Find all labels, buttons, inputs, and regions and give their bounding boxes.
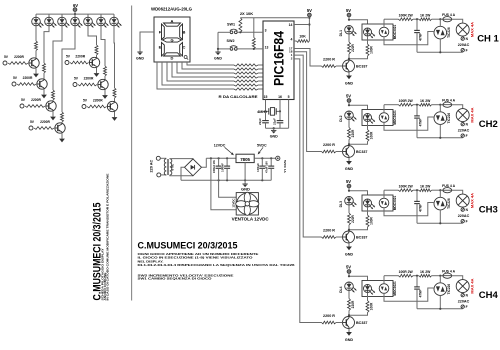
- wire display common to ground: [140, 32, 154, 52]
- resistor 2200R (Q2 base): [17, 83, 36, 86]
- svg-text:CH4: CH4: [479, 290, 499, 301]
- pin number 16: [278, 95, 282, 99]
- triac TIC226 (CH3): [434, 197, 451, 210]
- svg-text:47NF: 47NF: [418, 33, 422, 41]
- wire PIC output to CH1 driver: [294, 49, 322, 67]
- wire display pin to resistor row (PIC pin 9): [172, 62, 234, 77]
- svg-text:2200 R: 2200 R: [323, 314, 335, 318]
- capacitor 100uF (output): [256, 158, 266, 180]
- wire 220R to collector: [348, 225, 350, 231]
- label 220AC (CH3): [458, 214, 470, 218]
- svg-text:220AC: 220AC: [458, 214, 470, 218]
- svg-text:GND: GND: [345, 338, 354, 342]
- wire base resistor to Q10: [336, 236, 343, 238]
- fuse FUS 4A (CH4): [443, 273, 452, 278]
- wire LED7 cathode routing: [113, 26, 116, 88]
- LED display-segment E: [84, 17, 96, 27]
- LED DL2: [345, 111, 357, 121]
- svg-text:MAX 4A: MAX 4A: [469, 22, 474, 37]
- resistor 220R (CH3): [348, 213, 356, 225]
- transistor Q11 BC337: [343, 317, 368, 329]
- terminal 5V (CH1): [346, 8, 351, 17]
- pin number 8: [265, 71, 267, 75]
- pin number 7: [265, 67, 267, 71]
- resistor LED4 series (vertical): [61, 112, 64, 122]
- transistor Q7: [107, 101, 117, 111]
- label DL3: [339, 201, 343, 208]
- svg-text:BC337: BC337: [356, 150, 367, 154]
- terminal 5V (PIC supply): [307, 8, 312, 17]
- wire opto output to snubber line: [383, 105, 385, 113]
- optocoupler input LED: [364, 285, 375, 295]
- label 2200R (Q6): [84, 76, 94, 80]
- wire opto LED to 100R: [367, 36, 369, 44]
- terminal 5V (Q1 base): [3, 55, 9, 65]
- svg-text:MOC3021: MOC3021: [393, 196, 397, 211]
- regulator U3 7805: [236, 154, 254, 162]
- wire 100R to collector node: [349, 142, 368, 145]
- resistor LED3 series (vertical): [52, 90, 55, 100]
- wire anode stub LED 6: [100, 14, 102, 17]
- wire bridge positive to 12V rail: [202, 158, 207, 167]
- label FUS 4 A: [442, 98, 455, 102]
- wire 220R to collector: [348, 54, 350, 60]
- label MOC3021: [393, 281, 397, 296]
- wire Q8 emitter: [348, 72, 350, 76]
- display segment B: [180, 24, 183, 40]
- resistor LED6 series (vertical): [104, 66, 107, 76]
- svg-text:TIC226: TIC226: [447, 284, 451, 295]
- svg-text:BC337: BC337: [356, 236, 367, 240]
- wire 5V to DL1 and opto: [348, 17, 368, 24]
- svg-text:CH 1: CH 1: [477, 34, 499, 45]
- resistor 2200R (Q3 base): [25, 105, 45, 108]
- svg-text:PIC16F84: PIC16F84: [271, 31, 286, 86]
- wire triac MT1 to bottom rail: [439, 210, 441, 223]
- pin number 11: [265, 83, 269, 87]
- pin number 3: [265, 29, 267, 33]
- svg-text:5V: 5V: [346, 264, 351, 269]
- svg-text:5VDC: 5VDC: [257, 143, 267, 147]
- label FUS 4 A: [442, 269, 455, 273]
- wire resistor to PIC pin 11: [258, 84, 263, 86]
- wire to 100R 2W: [384, 275, 399, 277]
- svg-text:D: D: [171, 56, 174, 61]
- svg-text:5V: 5V: [346, 93, 351, 98]
- microcontroller U1 PIC16F84 body: [263, 21, 294, 100]
- power rail 6V terminal: [73, 3, 78, 11]
- svg-text:TIC226: TIC226: [447, 198, 451, 209]
- svg-text:100nF: 100nF: [221, 163, 225, 172]
- optocoupler output phototriac: [379, 113, 389, 123]
- wire anode stub LED 3: [61, 14, 63, 17]
- ground (crystal): [270, 128, 278, 138]
- terminal 220 AC lower: [157, 173, 161, 177]
- capacitor 22pF (right): [273, 111, 284, 128]
- wire 1K 2W to fuse: [432, 18, 444, 20]
- svg-text:100R: 100R: [370, 131, 374, 139]
- svg-text:1K 2W: 1K 2W: [420, 184, 431, 188]
- wire fuse to lamp: [452, 276, 463, 280]
- title C.MUSUMECI 20/3/2015 (vertical): [92, 203, 104, 301]
- resistor 100R 2W (CH1): [399, 18, 414, 21]
- svg-text:2200 R: 2200 R: [323, 229, 335, 233]
- svg-text:B: B: [182, 29, 185, 34]
- svg-text:5V: 5V: [346, 8, 351, 13]
- svg-text:100R: 100R: [370, 45, 374, 53]
- wire 100R 2W to 1K 2W: [413, 104, 419, 106]
- transformer T1 secondary: [170, 159, 172, 175]
- label segment F: [159, 29, 162, 34]
- ground (CH3): [345, 247, 354, 257]
- svg-text:VENTOLA 12VDC: VENTOLA 12VDC: [232, 217, 269, 222]
- label 2200 R (CH4): [323, 314, 335, 318]
- wire SW1 to PIC pin 3: [237, 31, 263, 33]
- svg-text:100R 2W: 100R 2W: [399, 13, 414, 17]
- wire base resistor to Q8: [336, 65, 343, 67]
- note line 3: [138, 259, 164, 263]
- lamp load (CH1): [456, 23, 469, 36]
- svg-text:MAX 4A: MAX 4A: [469, 107, 474, 122]
- wire resistor to Q3 collector: [52, 99, 54, 102]
- ground (Q3 emitter): [50, 117, 56, 121]
- wire 1K 2W to fuse: [432, 189, 444, 191]
- label MAX 4A (CH2): [469, 107, 474, 122]
- transformer T1 core: [168, 159, 169, 175]
- svg-text:MOC3021: MOC3021: [393, 110, 397, 125]
- wire LED1 cathode to collector resistor: [35, 26, 37, 41]
- transistor Q1: [29, 58, 39, 68]
- resistor 2200R (CH3 base): [322, 236, 337, 239]
- terminal 5V (Q3 base): [20, 98, 26, 108]
- ground (CH2): [345, 161, 354, 171]
- wire Q11 emitter: [348, 329, 350, 333]
- label 2200 R (CH1): [323, 58, 335, 62]
- transistor Q5: [89, 57, 99, 67]
- svg-text:220R: 220R: [351, 43, 355, 51]
- svg-text:SW1 CAMBIO SEQUENZA DI GIOCO: SW1 CAMBIO SEQUENZA DI GIOCO: [138, 277, 213, 281]
- transformer T1 primary: [164, 159, 166, 175]
- label 100R 2W: [399, 13, 414, 17]
- fuse FUS 4A (CH2): [443, 102, 452, 107]
- resistor 10K b (SW2 pull-up): [252, 18, 255, 49]
- resistor 1K 2W (CH4): [419, 274, 432, 277]
- label 100R 2W: [399, 184, 414, 188]
- wire fuse to lamp: [452, 19, 463, 23]
- wire resistor to PIC pin 10: [258, 80, 263, 82]
- resistor 1K 2W (CH1): [419, 18, 432, 21]
- wire SW2 to ground stem: [218, 48, 230, 50]
- label 2200 R (CH2): [323, 143, 335, 147]
- label DL1: [339, 30, 343, 37]
- wire LED5 cathode routing: [88, 26, 97, 45]
- resistor 100R (CH3): [366, 215, 374, 227]
- wire display pin to resistor row (PIC pin 12): [157, 62, 234, 89]
- svg-text:SW2: SW2: [227, 39, 235, 43]
- fuse FUS 4A (CH3): [443, 188, 452, 193]
- wire Q10 emitter: [348, 243, 350, 247]
- label SW2: [227, 39, 235, 43]
- label CH4: [479, 290, 499, 301]
- wire display pin to resistor row (PIC pin 11): [162, 62, 234, 85]
- label 2200R (Q2): [23, 76, 33, 80]
- svg-text:1K 2W: 1K 2W: [420, 99, 431, 103]
- wire resistor to PIC pin 9: [258, 76, 263, 78]
- crystal X1 4MHz: [269, 108, 276, 116]
- wire triac MT1 to bottom rail: [439, 39, 441, 52]
- subtitle ANODO COMUNE (vertical): [103, 273, 107, 301]
- wire PIC output to CH4 driver: [294, 59, 322, 323]
- ground (display): [136, 52, 144, 61]
- wire resistor to PIC pin 8: [258, 72, 263, 74]
- pin number 9: [265, 75, 267, 79]
- LED display-segment G: [110, 17, 122, 27]
- label DL2: [339, 115, 343, 122]
- wire anode stub LED 7: [113, 14, 115, 17]
- svg-text:DL2: DL2: [339, 115, 343, 122]
- svg-text:220 AC: 220 AC: [150, 160, 154, 173]
- terminal 5V (CH4): [346, 264, 351, 273]
- wire anode stub LED 2: [48, 14, 50, 17]
- svg-text:16: 16: [278, 95, 282, 99]
- wire Q4 emitter: [61, 133, 63, 138]
- frame divider line: [131, 6, 133, 301]
- label 12VDC with arrow: [214, 143, 234, 155]
- LED display-segment C: [58, 17, 70, 27]
- capacitor 1000uF 16V: [212, 158, 222, 180]
- wire opto LED to 100R: [367, 207, 369, 215]
- wire 100R to collector node: [349, 313, 368, 316]
- wire AC terminals to transformer: [160, 158, 166, 175]
- resistor 100R (CH1): [366, 44, 374, 56]
- label MAX 4A (CH1): [469, 22, 474, 37]
- label 1K 2W: [420, 270, 431, 274]
- pin number 17: [289, 46, 293, 50]
- label DL4: [339, 286, 343, 293]
- wire resistor to PIC pin 6: [258, 64, 263, 66]
- svg-text:10K: 10K: [299, 35, 306, 39]
- transistor Q4: [55, 123, 65, 133]
- terminal F (CH1): [461, 48, 468, 52]
- note line 5: [138, 273, 234, 277]
- resistor 2200R (CH2 base): [322, 150, 337, 153]
- wire lamp to N terminal: [462, 35, 464, 38]
- wire to 100R 2W: [384, 104, 399, 106]
- wire opto output to snubber line: [383, 19, 385, 27]
- wire SW1 to ground stem: [218, 31, 230, 33]
- svg-text:100R 2W: 100R 2W: [399, 270, 414, 274]
- wire anode stub LED 1: [35, 14, 37, 17]
- label segment G: [170, 38, 173, 43]
- wire PIC pin 16 down: [276, 100, 281, 113]
- wire 12V rail to fan: [211, 158, 236, 210]
- wire 7805 ground pin: [244, 163, 246, 184]
- label segment D: [171, 56, 174, 61]
- optocoupler U8 MOC3021 body: [362, 281, 393, 297]
- resistor 2200R (Q7 base): [87, 105, 107, 108]
- wire base resistor to Q11: [336, 322, 343, 324]
- svg-text:GND: GND: [136, 57, 144, 61]
- resistor 100R 2W (CH4): [399, 274, 414, 277]
- label MOC3021: [393, 25, 397, 40]
- note line 4: [138, 263, 295, 267]
- transistor Q2: [37, 79, 47, 89]
- wire resistor to Q7 collector: [114, 98, 116, 101]
- wire to 100R 2W: [384, 18, 399, 20]
- wire PIC output to CH3 driver: [294, 55, 322, 237]
- svg-text:1K 2W: 1K 2W: [420, 13, 431, 17]
- resistor 2200R (CH4 base): [322, 321, 337, 324]
- wire 5V to DL4 and opto: [348, 273, 368, 280]
- label FUS 4 A: [442, 13, 455, 17]
- resistor 220R (CH4): [348, 299, 356, 311]
- svg-text:47uF 16V: 47uF 16V: [265, 161, 269, 173]
- wire resistor to Q1 collector: [35, 51, 37, 58]
- display segment E: [162, 42, 165, 56]
- wire resistor to Q6 collector: [104, 76, 106, 79]
- capacitor 47NF (CH4): [414, 276, 422, 309]
- label 220AC (CH2): [458, 129, 470, 133]
- subtitle SCHEDA PILOTAGGIO DISPLAY (vertical): [100, 249, 104, 301]
- display segment G: [163, 38, 182, 42]
- resistor LED5 series (vertical): [95, 45, 98, 55]
- ground (CH4): [345, 332, 354, 342]
- wire anode stub LED 5: [87, 14, 89, 17]
- resistor 100R 2W (CH3): [399, 189, 414, 192]
- wire triac MT2: [439, 276, 441, 283]
- label 2X 10K: [240, 11, 253, 16]
- svg-text:R DA CALCOLARE: R DA CALCOLARE: [219, 94, 258, 99]
- terminal 5V (Q6 base): [73, 76, 79, 86]
- ground (Q5 emitter): [94, 73, 100, 77]
- svg-text:220R: 220R: [351, 214, 355, 222]
- svg-text:C.MUSUMECI 20/3/2015: C.MUSUMECI 20/3/2015: [138, 241, 238, 251]
- wire Q7 emitter: [114, 112, 116, 117]
- resistor 1K 2W (CH2): [419, 103, 432, 106]
- optocoupler output phototriac: [379, 284, 389, 294]
- svg-text:12VDC: 12VDC: [214, 143, 226, 147]
- note line 1: [138, 252, 259, 256]
- svg-text:220R: 220R: [351, 129, 355, 137]
- svg-text:DL1: DL1: [339, 30, 343, 37]
- svg-text:GND: GND: [345, 252, 354, 256]
- terminal 220 AC upper: [156, 156, 160, 160]
- ground (PSU): [241, 184, 250, 192]
- svg-text:TIC226: TIC226: [447, 113, 451, 124]
- resistor 100R (CH2): [366, 130, 374, 142]
- resistor 100R (CH4): [366, 301, 374, 313]
- pin number 5: [288, 95, 290, 99]
- wire fuse to lamp: [452, 190, 463, 194]
- wire secondary to bridge top: [170, 158, 193, 160]
- wire 100R to collector node: [349, 227, 368, 230]
- label 220 AC: [150, 160, 154, 173]
- label SW1: [227, 22, 235, 26]
- svg-text:2200R: 2200R: [31, 98, 41, 102]
- resistor LED1 series (vertical): [35, 41, 38, 51]
- optocoupler input LED: [364, 28, 375, 38]
- svg-text:14: 14: [289, 23, 293, 27]
- svg-text:100uF: 100uF: [256, 163, 260, 172]
- svg-text:220AC: 220AC: [458, 129, 470, 133]
- wire triac MT2: [439, 190, 441, 197]
- capacitor 47NF (CH2): [414, 105, 422, 138]
- display segment C: [180, 42, 183, 56]
- resistor segment series R (to PIC pin 9): [234, 76, 258, 78]
- svg-text:220R: 220R: [351, 300, 355, 308]
- resistor segment series R (to PIC pin 10): [234, 80, 258, 82]
- terminal 5V (Q7 base): [82, 98, 88, 108]
- wire opto output to snubber line: [383, 276, 385, 284]
- label 10K: [299, 35, 306, 39]
- svg-text:100R: 100R: [370, 302, 374, 310]
- ground (Q1 emitter): [33, 74, 39, 78]
- svg-text:WD06212AUG-20LG: WD06212AUG-20LG: [151, 7, 193, 12]
- wire Q6 emitter: [104, 90, 106, 95]
- svg-text:F: F: [466, 134, 468, 138]
- wire PIC pin 4 to 10K: [294, 40, 297, 42]
- display segment F: [162, 24, 165, 40]
- triac TIC226 (CH2): [434, 112, 451, 125]
- label segment C: [182, 45, 185, 50]
- title C.MUSUMECI 20/3/2015: [138, 241, 238, 251]
- display segment D: [164, 53, 181, 56]
- svg-text:2200 R: 2200 R: [323, 58, 335, 62]
- wire 12V rail: [206, 157, 236, 159]
- wire lamp to N terminal: [462, 292, 464, 295]
- capacitor 22pF (left): [258, 111, 269, 128]
- label 2200R (Q7): [93, 98, 103, 102]
- resistor 220R (CH1): [348, 42, 356, 54]
- svg-text:6 AC: 6 AC: [171, 163, 175, 171]
- fuse FUS 4A (CH1): [443, 17, 452, 22]
- resistor segment series R (to PIC pin 12): [234, 88, 258, 90]
- svg-text:F: F: [466, 305, 468, 309]
- transistor Q8 BC337: [343, 60, 368, 72]
- ground (switches): [214, 52, 222, 61]
- label CH2: [479, 119, 498, 130]
- wire LED2 cathode routing: [44, 26, 49, 63]
- transistor Q3: [46, 101, 56, 111]
- svg-text:47NF: 47NF: [418, 119, 422, 127]
- svg-text:G: G: [170, 38, 173, 43]
- lamp load (CH3): [456, 194, 469, 207]
- wire LED6 cathode routing: [101, 26, 105, 66]
- svg-text:BC337: BC337: [356, 65, 367, 69]
- LED display-segment D: [71, 17, 83, 27]
- wire resistor to Q4 collector: [61, 121, 63, 124]
- capacitor 47uF 16V (output): [265, 158, 275, 180]
- terminal 5VDC 1A output: [276, 156, 280, 160]
- wire PIC pin 5 down: [288, 100, 290, 129]
- label 220AC (CH4): [458, 300, 470, 304]
- note IN CASO DI CATODO COMUNE... (vertical): [106, 174, 110, 301]
- resistor 1K 2W (CH3): [419, 189, 432, 192]
- label 5VDC with arrow: [257, 143, 267, 154]
- wire display pin to resistor row (PIC pin 6): [187, 62, 234, 65]
- wire resistor to PIC pin 7: [258, 68, 263, 70]
- svg-text:22pF: 22pF: [258, 118, 262, 125]
- svg-text:5: 5: [288, 95, 290, 99]
- optocoupler U6 MOC3021 body: [362, 110, 393, 126]
- switch SW1: [230, 29, 238, 34]
- wire ground rail: [181, 179, 271, 181]
- wire 10K pull-up rail: [240, 17, 309, 19]
- note line 6: [138, 277, 213, 281]
- svg-text:2200R: 2200R: [75, 54, 85, 58]
- ground (Q4 emitter): [59, 139, 65, 143]
- svg-text:CH2: CH2: [479, 119, 498, 130]
